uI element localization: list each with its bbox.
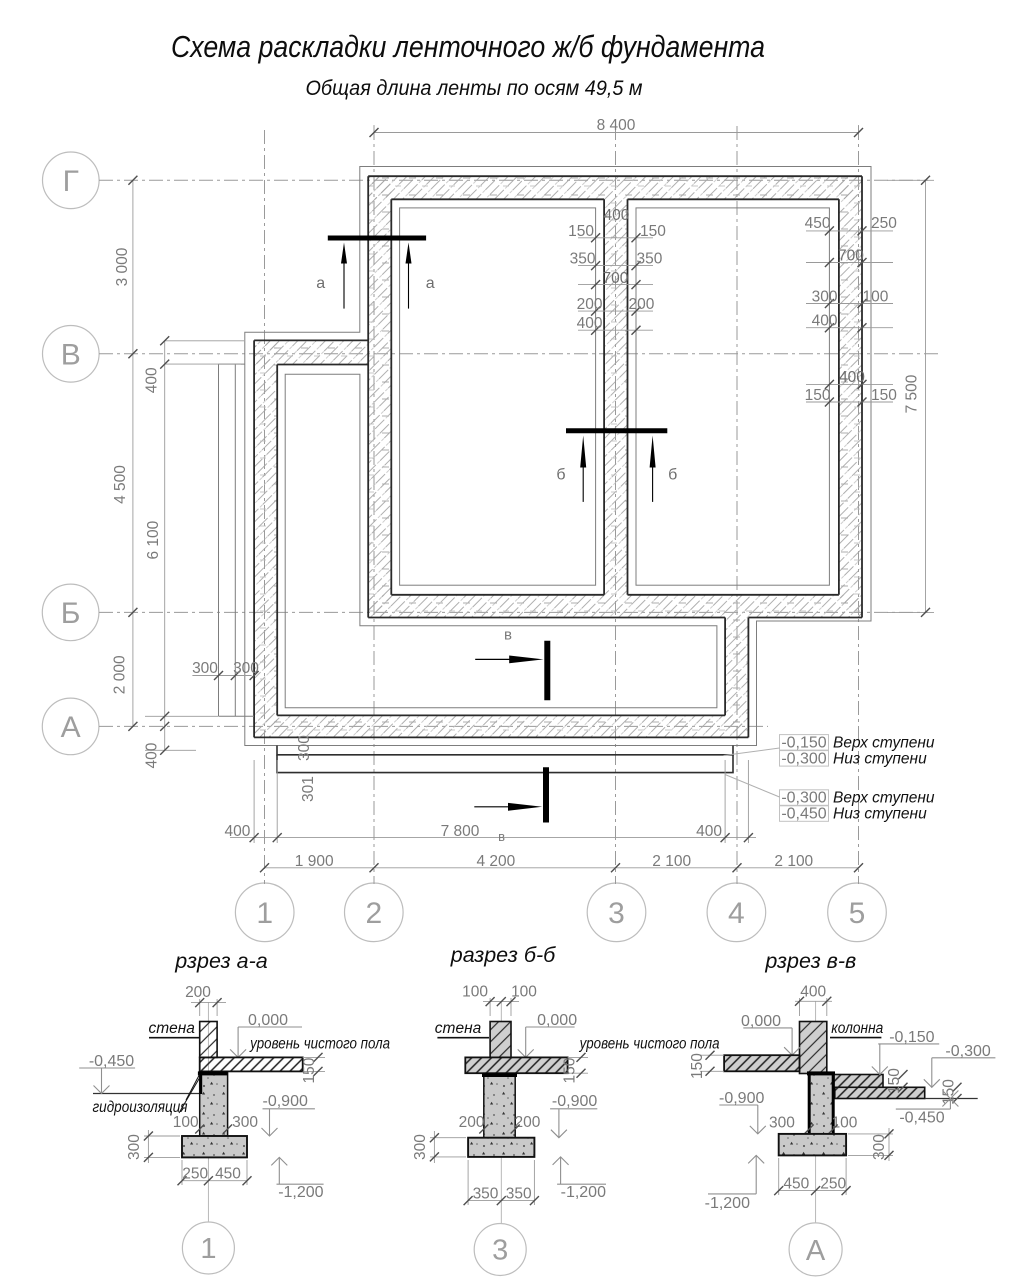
svg-text:1 900: 1 900 — [295, 853, 334, 870]
svg-text:300: 300 — [233, 660, 259, 677]
svg-text:рзрез в-в: рзрез в-в — [764, 949, 856, 973]
stem side waterproofing left в-в — [808, 1074, 811, 1134]
label гидроизоляция а-а — [93, 1075, 200, 1117]
axis circle В — [43, 326, 100, 383]
svg-text:200: 200 — [577, 296, 603, 313]
svg-text:150: 150 — [871, 387, 897, 404]
svg-text:в: в — [498, 829, 505, 844]
svg-text:400: 400 — [143, 367, 160, 393]
axis circle А section — [789, 1223, 842, 1276]
callout -0,300 верх ступени — [780, 790, 935, 807]
wall band Б — [368, 595, 862, 618]
right wall outer face — [861, 176, 863, 617]
dim 450 250 в-в — [774, 1158, 850, 1195]
svg-text:2 000: 2 000 — [112, 655, 129, 694]
floor slab в-в — [724, 1055, 799, 1071]
svg-text:1: 1 — [200, 1233, 216, 1265]
axis line 2 — [373, 126, 375, 884]
axis line 3 — [615, 126, 617, 884]
svg-text:в: в — [504, 627, 512, 644]
svg-text:-0,450: -0,450 — [781, 806, 826, 823]
footing step line left inner — [234, 364, 236, 716]
svg-text:0,000: 0,000 — [741, 1013, 781, 1030]
svg-text:300: 300 — [192, 660, 218, 677]
svg-text:2 100: 2 100 — [774, 853, 813, 870]
svg-text:1: 1 — [256, 897, 273, 930]
axis line А — [99, 725, 768, 727]
axis line В — [99, 353, 941, 355]
svg-text:100: 100 — [173, 1114, 199, 1131]
svg-text:Верх ступени: Верх ступени — [833, 734, 935, 751]
dim 150 slab left в-в — [689, 1051, 724, 1079]
right wall footing dims — [805, 215, 898, 407]
section marker б-б cut line — [566, 428, 667, 433]
level -0,900 в-в — [719, 1090, 766, 1134]
axis line 4 — [736, 126, 738, 884]
axis circle Б — [42, 584, 99, 641]
dim 150 step2 в-в — [941, 1079, 962, 1105]
svg-text:300: 300 — [232, 1114, 258, 1131]
svg-text:А: А — [806, 1235, 826, 1267]
svg-text:-0,450: -0,450 — [89, 1053, 134, 1070]
dim 300 footing в-в — [848, 1128, 894, 1161]
svg-text:300: 300 — [126, 1134, 143, 1160]
svg-text:100: 100 — [863, 288, 889, 305]
waterproofing top в-в — [807, 1071, 835, 1075]
svg-text:В: В — [61, 338, 81, 371]
dim 200 200 stem б-б — [459, 1114, 541, 1134]
wall band А bottom — [254, 715, 748, 737]
section б-б axis line — [500, 1001, 502, 1223]
svg-text:Г: Г — [63, 165, 79, 198]
axis line Б — [99, 611, 928, 613]
foundation stem в-в — [809, 1074, 833, 1134]
svg-text:-1,200: -1,200 — [561, 1184, 606, 1201]
svg-text:-0,300: -0,300 — [945, 1043, 990, 1060]
dim 250 450 а-а — [178, 1160, 252, 1185]
axis circle 3 section — [474, 1224, 526, 1276]
svg-text:300: 300 — [296, 735, 313, 761]
callout leader 1 — [724, 748, 780, 756]
level -1,200 б-б — [553, 1157, 606, 1201]
step2 slab в-в — [835, 1087, 925, 1098]
svg-text:150: 150 — [301, 1057, 318, 1083]
svg-text:200: 200 — [185, 984, 211, 1001]
dim 100 100 б-б — [462, 984, 537, 1017]
level -1,200 в-в — [705, 1155, 765, 1212]
svg-text:6 100: 6 100 — [145, 520, 162, 559]
dim 300 100 stem в-в — [769, 1115, 858, 1134]
axis line 5 — [858, 126, 860, 884]
wall б-б — [490, 1022, 511, 1058]
outdoor step upper line — [277, 746, 733, 755]
Б wall bottom face seg2 — [748, 617, 862, 619]
level 0,000 а-а — [230, 1012, 302, 1057]
axis circle Г — [43, 152, 100, 209]
axis3 wall east face — [627, 199, 629, 595]
svg-text:уровень чистого пола: уровень чистого пола — [249, 1036, 390, 1053]
wall band axis 4 lower — [725, 618, 748, 738]
svg-text:Верх ступени: Верх ступени — [833, 790, 935, 807]
dim 400 в-в — [795, 983, 832, 1016]
dim column left inner 400/6100/400 — [143, 336, 244, 768]
dim 300 footing а-а — [126, 1130, 180, 1163]
svg-text:б: б — [668, 467, 677, 484]
left wall east face — [276, 365, 278, 716]
svg-text:300: 300 — [871, 1134, 888, 1160]
axis circle 1 — [235, 883, 294, 942]
svg-text:150: 150 — [689, 1053, 706, 1079]
svg-text:400: 400 — [577, 315, 603, 332]
В wall inner face — [277, 364, 368, 366]
svg-text:-0,900: -0,900 — [263, 1093, 308, 1110]
svg-text:350: 350 — [473, 1185, 499, 1202]
svg-text:301: 301 — [300, 776, 317, 802]
svg-text:рзрез а-а: рзрез а-а — [174, 949, 267, 973]
level -0,900 б-б — [550, 1093, 597, 1138]
Б wall bottom face seg1 — [368, 617, 725, 619]
level -0,150 в-в — [872, 1029, 939, 1075]
level 0,000 в-в — [741, 1013, 800, 1055]
footing б-б — [468, 1138, 534, 1157]
wall band top (axis Г) — [368, 176, 862, 199]
svg-text:250: 250 — [871, 215, 897, 232]
А wall bottom face — [254, 736, 748, 738]
svg-text:-0,150: -0,150 — [889, 1029, 934, 1046]
svg-text:300: 300 — [769, 1115, 795, 1132]
axis circle 5 — [828, 883, 887, 942]
section marker в-в lower bar — [543, 767, 549, 822]
svg-text:разрез б-б: разрез б-б — [450, 943, 556, 967]
footing step left top cap — [219, 363, 245, 365]
section marker в-в upper bar — [544, 641, 550, 701]
svg-text:5: 5 — [849, 897, 866, 930]
svg-text:б: б — [556, 467, 565, 484]
footing step line left outer — [218, 364, 220, 716]
section а-а axis line — [207, 1002, 209, 1222]
svg-text:7 500: 7 500 — [904, 374, 921, 413]
svg-text:3: 3 — [608, 897, 625, 930]
svg-text:4: 4 — [728, 897, 745, 930]
dim row 1900 4200 2100 2100 — [260, 853, 863, 872]
footing inner outline L-room — [285, 374, 717, 708]
wall band left (axis 1) — [254, 340, 277, 737]
dim row 400 7800 400 — [224, 760, 756, 844]
svg-text:100: 100 — [462, 984, 488, 1001]
axis line 1 — [264, 130, 266, 884]
waterproofing а-а — [198, 1071, 228, 1075]
svg-text:200: 200 — [459, 1114, 485, 1131]
section в-в axis line — [815, 1001, 817, 1223]
outdoor step lower line — [277, 755, 733, 773]
svg-text:7 800: 7 800 — [441, 823, 480, 840]
axis circle 4 — [707, 883, 766, 942]
svg-text:300: 300 — [812, 288, 838, 305]
wall б-б lower part — [490, 1022, 511, 1058]
axis circle 2 — [345, 883, 404, 942]
svg-text:Низ ступени: Низ ступени — [833, 750, 927, 767]
section marker а-а cut line — [328, 236, 426, 241]
level -0,900 а-а — [262, 1093, 315, 1136]
dim 350 350 б-б — [464, 1160, 539, 1205]
dim 100 300 stem а-а — [173, 1114, 259, 1134]
ground line в-в — [925, 1098, 978, 1100]
dim column left outer 3000/4500/2000 — [112, 176, 138, 731]
axis4 wall west face — [724, 618, 726, 716]
column в-в — [800, 1022, 827, 1074]
svg-text:2: 2 — [365, 897, 382, 930]
right wall inner face — [838, 199, 840, 595]
step1 slab в-в — [834, 1075, 883, 1088]
svg-text:150: 150 — [886, 1068, 903, 1094]
svg-text:колонна: колонна — [831, 1020, 883, 1037]
dim 150 slab б-б — [562, 1053, 589, 1084]
axis circle А — [42, 698, 99, 755]
level 0,000 б-б — [518, 1012, 578, 1057]
svg-text:250: 250 — [182, 1165, 208, 1182]
svg-text:-0,900: -0,900 — [719, 1090, 764, 1107]
svg-text:400: 400 — [224, 823, 250, 840]
footing outer outline — [245, 167, 871, 746]
footing в-в — [779, 1134, 846, 1156]
axis line Г — [99, 179, 928, 181]
svg-text:Низ ступени: Низ ступени — [833, 806, 927, 823]
svg-text:а: а — [316, 275, 325, 292]
axis circle 1 section — [182, 1222, 234, 1274]
axis circle 3 — [587, 883, 646, 942]
Б wall top face seg2 — [628, 594, 839, 596]
wall band axis 3 interior — [604, 199, 627, 595]
svg-text:4 200: 4 200 — [477, 853, 516, 870]
svg-text:400: 400 — [603, 207, 629, 224]
svg-text:100: 100 — [511, 984, 537, 1001]
wall band axis 2 — [368, 176, 391, 617]
svg-text:350: 350 — [570, 251, 596, 268]
level -0,300 в-в — [924, 1043, 996, 1088]
svg-text:0,000: 0,000 — [248, 1012, 288, 1029]
svg-text:Б: Б — [61, 597, 81, 630]
level -0,450 а-а — [79, 1053, 135, 1094]
svg-text:350: 350 — [637, 251, 663, 268]
top wall inner face seg2 — [628, 198, 839, 200]
footing step left bottom cap — [219, 715, 255, 717]
svg-text:400: 400 — [839, 369, 865, 386]
svg-text:2 100: 2 100 — [652, 853, 691, 870]
svg-text:450: 450 — [783, 1175, 809, 1192]
dim 8400 top — [370, 117, 864, 140]
svg-text:450: 450 — [805, 215, 831, 232]
foundation stem а-а — [200, 1071, 228, 1136]
axis3 wall footing dims — [568, 207, 666, 335]
footing inner outline central room — [400, 208, 596, 585]
top wall inner face seg1 — [391, 198, 604, 200]
svg-text:стена: стена — [148, 1020, 195, 1037]
floor slab б-б — [465, 1057, 567, 1073]
footing а-а — [182, 1136, 247, 1157]
svg-text:-1,200: -1,200 — [278, 1184, 323, 1201]
callout -0,150 верх ступени — [780, 734, 935, 751]
wall band right (axis 5) — [839, 176, 862, 617]
dim 150 slab а-а — [301, 1053, 325, 1084]
dim 300 footing б-б — [412, 1131, 466, 1163]
label колонна в-в — [830, 1020, 884, 1038]
svg-text:А: А — [61, 711, 81, 744]
svg-text:3: 3 — [492, 1235, 508, 1267]
section marker в-в upper arrow — [475, 656, 543, 664]
svg-text:-0,450: -0,450 — [899, 1110, 944, 1127]
callout -0,450 низ ступени — [780, 806, 928, 823]
svg-text:400: 400 — [800, 983, 826, 1000]
svg-text:Общая длина ленты по осям 49,5: Общая длина ленты по осям 49,5 м — [306, 77, 643, 100]
А wall top face — [277, 714, 725, 716]
svg-text:250: 250 — [820, 1175, 846, 1192]
svg-text:400: 400 — [143, 742, 160, 768]
section marker в-в lower arrow — [474, 803, 542, 811]
section marker а-а arrow right — [406, 243, 412, 309]
svg-text:400: 400 — [696, 823, 722, 840]
ground line а-а — [93, 1093, 200, 1095]
stem side waterproofing right в-в — [832, 1074, 835, 1134]
svg-text:-0,300: -0,300 — [781, 790, 826, 807]
label стена б-б — [435, 1020, 489, 1038]
Б wall top face seg1 — [391, 594, 604, 596]
floor slab а-а — [200, 1057, 303, 1071]
svg-text:700: 700 — [838, 247, 864, 264]
wall band В step — [254, 340, 368, 364]
svg-text:-0,300: -0,300 — [781, 750, 826, 767]
svg-text:150: 150 — [568, 223, 594, 240]
section marker а-а arrow left — [341, 243, 347, 309]
label стена а-а — [148, 1020, 199, 1038]
left wall west face — [253, 340, 255, 737]
level -0,450 в-в — [896, 1091, 959, 1127]
svg-text:350: 350 — [506, 1185, 532, 1202]
dim 150 step1 в-в — [886, 1068, 908, 1094]
axis4 wall east face — [747, 618, 749, 738]
В wall outer face — [254, 339, 368, 341]
svg-text:4 500: 4 500 — [112, 465, 129, 504]
svg-text:150: 150 — [805, 387, 831, 404]
dim 300 300 left steps — [192, 660, 259, 680]
svg-text:стена: стена — [435, 1020, 482, 1037]
dim 200 wall а-а — [185, 984, 226, 1016]
svg-text:-0,150: -0,150 — [781, 734, 826, 751]
svg-text:-1,200: -1,200 — [705, 1195, 750, 1212]
level -1,200 а-а — [271, 1157, 323, 1201]
svg-text:8 400: 8 400 — [597, 117, 636, 134]
waterproofing б-б — [482, 1073, 517, 1077]
foundation stem б-б — [484, 1073, 515, 1138]
svg-text:400: 400 — [812, 313, 838, 330]
svg-text:уровень чистого пола: уровень чистого пола — [579, 1036, 720, 1053]
svg-text:300: 300 — [412, 1134, 429, 1160]
callout leader 2 — [725, 775, 780, 798]
axis2 wall west face — [367, 176, 369, 617]
svg-text:0,000: 0,000 — [537, 1012, 577, 1029]
svg-text:700: 700 — [602, 270, 628, 287]
axis3 wall west face — [603, 199, 605, 595]
waterproofing а-а side — [200, 1071, 203, 1094]
svg-text:150: 150 — [640, 223, 666, 240]
svg-text:3 000: 3 000 — [114, 247, 131, 286]
svg-text:150: 150 — [562, 1057, 579, 1083]
footing inner outline right room — [636, 208, 829, 585]
section marker б-б arrow left — [580, 436, 586, 502]
axis2 wall east face — [390, 199, 392, 595]
top wall outer face — [368, 175, 862, 177]
callout -0,300 низ ступени — [780, 750, 928, 767]
wall а-а — [200, 1022, 217, 1058]
dim 7500 right — [887, 176, 934, 617]
svg-text:100: 100 — [832, 1115, 858, 1132]
section marker б-б arrow right — [650, 436, 656, 502]
svg-text:-0,900: -0,900 — [552, 1093, 597, 1110]
svg-text:450: 450 — [215, 1165, 241, 1182]
svg-text:Схема раскладки ленточного ж/б: Схема раскладки ленточного ж/б фундамент… — [171, 29, 765, 64]
svg-text:а: а — [426, 275, 435, 292]
svg-text:200: 200 — [629, 296, 655, 313]
svg-text:200: 200 — [514, 1114, 540, 1131]
